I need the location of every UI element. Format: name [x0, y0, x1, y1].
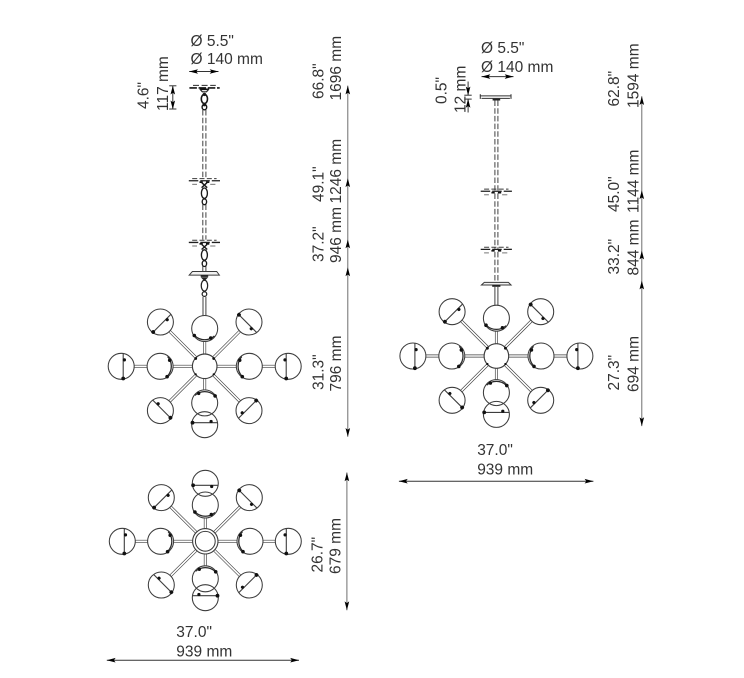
svg-text:Ø 5.5": Ø 5.5"	[481, 40, 524, 57]
svg-text:49.1": 49.1"	[310, 166, 327, 202]
svg-text:796 mm: 796 mm	[328, 336, 345, 392]
svg-text:946 mm: 946 mm	[328, 207, 345, 263]
svg-text:1696 mm: 1696 mm	[328, 36, 345, 101]
svg-text:12 mm: 12 mm	[453, 66, 470, 113]
svg-text:33.2": 33.2"	[606, 239, 623, 275]
svg-text:37.0": 37.0"	[176, 624, 212, 641]
svg-text:37.2": 37.2"	[310, 226, 327, 262]
svg-text:1246 mm: 1246 mm	[328, 139, 345, 204]
svg-text:1594 mm: 1594 mm	[626, 43, 643, 108]
svg-text:31.3": 31.3"	[310, 354, 327, 390]
svg-text:26.7": 26.7"	[309, 537, 326, 573]
svg-text:Ø 140 mm: Ø 140 mm	[191, 51, 263, 68]
svg-text:45.0": 45.0"	[606, 176, 623, 212]
svg-text:Ø 5.5": Ø 5.5"	[191, 33, 234, 50]
svg-text:939 mm: 939 mm	[176, 644, 232, 661]
svg-text:4.6": 4.6"	[135, 82, 152, 109]
svg-text:939 mm: 939 mm	[477, 462, 533, 479]
svg-text:844 mm: 844 mm	[626, 220, 643, 276]
svg-text:679 mm: 679 mm	[327, 518, 344, 574]
svg-text:694 mm: 694 mm	[626, 336, 643, 392]
svg-text:1144 mm: 1144 mm	[626, 150, 643, 213]
svg-text:0.5": 0.5"	[433, 77, 450, 104]
svg-text:Ø 140 mm: Ø 140 mm	[481, 59, 553, 76]
svg-text:37.0": 37.0"	[477, 442, 513, 459]
svg-text:27.3": 27.3"	[606, 355, 623, 391]
svg-text:117 mm: 117 mm	[155, 56, 172, 111]
svg-text:62.8": 62.8"	[606, 71, 623, 107]
svg-text:66.8": 66.8"	[310, 63, 327, 99]
